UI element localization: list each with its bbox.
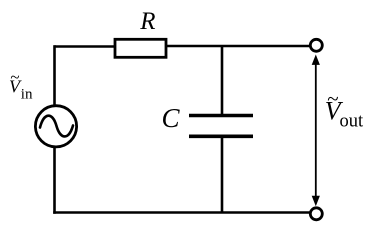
terminal: top output node xyxy=(310,39,322,51)
wire: top horizontal from resistor to top terminal xyxy=(166,45,311,48)
svg-text:~: ~ xyxy=(10,68,19,87)
svg-text:out: out xyxy=(340,112,365,132)
wire: bottom horizontal xyxy=(53,211,310,214)
svg-text:in: in xyxy=(21,87,33,103)
svg-text:R: R xyxy=(139,8,155,35)
sine wave inside source xyxy=(40,116,73,137)
wire: capacitor top stub xyxy=(221,46,224,116)
wire: top-left horizontal from corner to resistor xyxy=(55,45,116,48)
capacitor C bottom plate xyxy=(189,135,253,139)
source V1 (AC) xyxy=(35,106,76,147)
wire: left vertical upper (source top to top wire) xyxy=(53,45,56,106)
terminal: bottom output node xyxy=(310,208,322,220)
wire: left vertical lower (source bottom to bottom wire) xyxy=(53,146,56,214)
resistor R xyxy=(115,39,166,57)
wire: capacitor bottom stub xyxy=(221,136,224,212)
svg-text:C: C xyxy=(162,103,181,133)
arrow Vout (double-headed vertical) xyxy=(315,62,317,198)
svg-text:~: ~ xyxy=(327,86,338,110)
capacitor C top plate xyxy=(189,114,253,118)
